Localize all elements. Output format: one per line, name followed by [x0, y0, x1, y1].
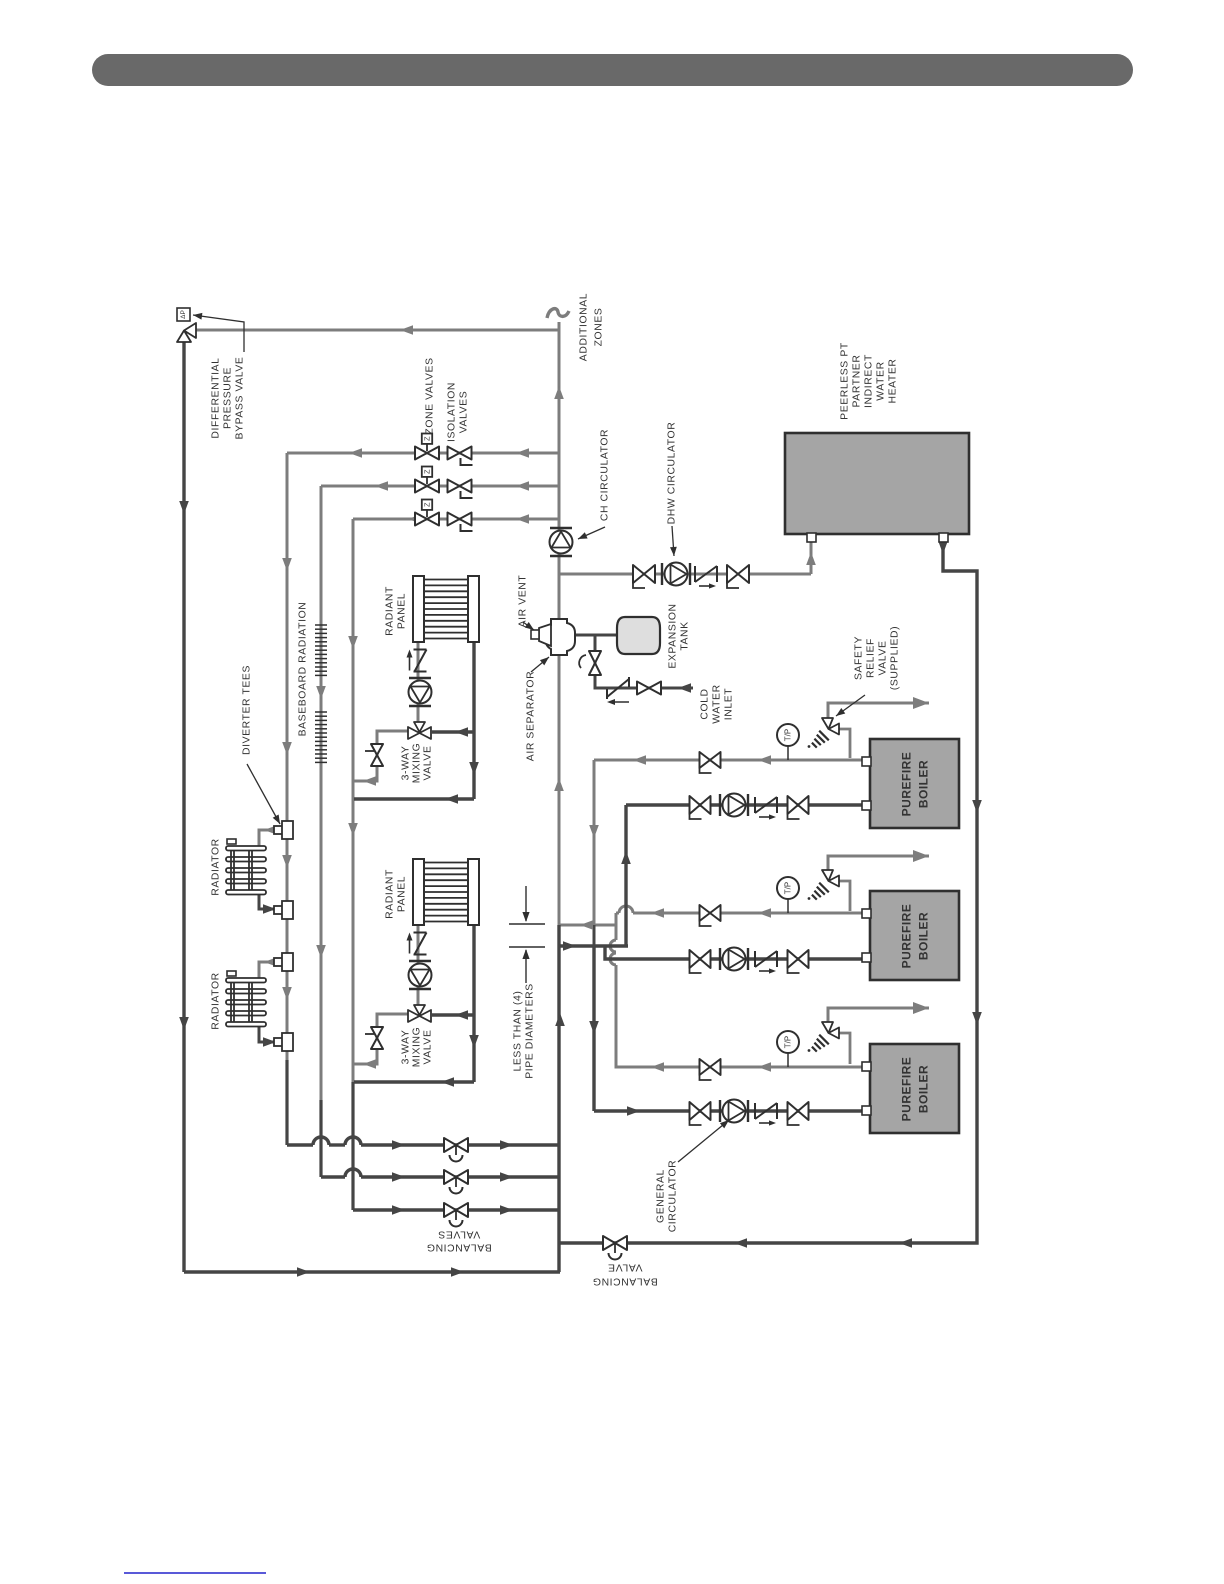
svg-text:VALVE: VALVE: [423, 746, 434, 781]
svg-text:GENERAL: GENERAL: [656, 1169, 667, 1223]
svg-text:BOILER: BOILER: [917, 912, 931, 960]
svg-text:INDIRECT: INDIRECT: [864, 354, 875, 408]
svg-text:ADDITIONAL: ADDITIONAL: [579, 293, 590, 361]
svg-text:PUREFIRE: PUREFIRE: [900, 1057, 914, 1122]
svg-text:PANEL: PANEL: [397, 593, 408, 629]
svg-text:RELIEF: RELIEF: [866, 638, 877, 678]
svg-text:ΔP: ΔP: [180, 310, 187, 319]
svg-text:T/P: T/P: [784, 1036, 793, 1048]
svg-text:BASEBOARD RADIATION: BASEBOARD RADIATION: [298, 602, 309, 737]
svg-text:INLET: INLET: [724, 688, 735, 720]
svg-text:3-WAY: 3-WAY: [401, 1030, 412, 1065]
svg-text:DIVERTER TEES: DIVERTER TEES: [242, 665, 253, 755]
svg-text:RADIATOR: RADIATOR: [211, 972, 222, 1030]
svg-text:TANK: TANK: [680, 621, 691, 650]
svg-text:WATER: WATER: [712, 684, 723, 723]
svg-text:VALVES: VALVES: [459, 391, 470, 434]
svg-text:ZONES: ZONES: [594, 308, 605, 347]
svg-text:PANEL: PANEL: [397, 876, 408, 912]
svg-text:Z: Z: [423, 469, 432, 474]
svg-text:SAFETY: SAFETY: [854, 636, 865, 680]
svg-text:Z: Z: [423, 436, 432, 441]
svg-text:HEATER: HEATER: [888, 359, 899, 404]
svg-text:PUREFIRE: PUREFIRE: [900, 904, 914, 969]
svg-text:(SUPPLIED): (SUPPLIED): [890, 626, 901, 690]
svg-text:MIXING: MIXING: [412, 1027, 423, 1068]
svg-text:DHW CIRCULATOR: DHW CIRCULATOR: [667, 422, 678, 525]
svg-text:T/P: T/P: [784, 729, 793, 741]
svg-text:RADIANT: RADIANT: [385, 869, 396, 919]
svg-text:3-WAY: 3-WAY: [401, 746, 412, 781]
svg-text:LESS THAN (4): LESS THAN (4): [513, 991, 524, 1072]
svg-text:ZONE VALVES: ZONE VALVES: [425, 357, 436, 434]
svg-text:MIXING: MIXING: [412, 743, 423, 784]
svg-text:BALANCING: BALANCING: [426, 1242, 491, 1253]
svg-text:AIR SEPARATOR: AIR SEPARATOR: [526, 671, 537, 761]
svg-text:PIPE DIAMETERS: PIPE DIAMETERS: [525, 983, 536, 1079]
svg-text:EXPANSION: EXPANSION: [668, 603, 679, 668]
svg-text:PUREFIRE: PUREFIRE: [900, 752, 914, 817]
svg-text:VALVES: VALVES: [438, 1229, 481, 1240]
svg-text:RADIANT: RADIANT: [385, 586, 396, 636]
svg-text:Z: Z: [423, 502, 432, 507]
svg-text:WATER: WATER: [876, 361, 887, 400]
svg-text:VALVE: VALVE: [878, 641, 889, 676]
svg-text:DIFFERENTIAL: DIFFERENTIAL: [211, 357, 222, 438]
svg-text:COLD: COLD: [700, 688, 711, 719]
svg-text:CH CIRCULATOR: CH CIRCULATOR: [600, 429, 611, 521]
svg-text:BYPASS VALVE: BYPASS VALVE: [235, 357, 246, 440]
svg-text:BOILER: BOILER: [917, 1065, 931, 1113]
svg-text:T/P: T/P: [784, 882, 793, 894]
svg-text:CIRCULATOR: CIRCULATOR: [668, 1160, 679, 1233]
svg-text:RADIATOR: RADIATOR: [211, 838, 222, 896]
svg-text:PEERLESS PT: PEERLESS PT: [840, 342, 851, 420]
svg-text:BOILER: BOILER: [917, 760, 931, 808]
svg-text:ISOLATION: ISOLATION: [447, 382, 458, 442]
svg-text:VALVE: VALVE: [608, 1262, 643, 1273]
svg-text:PARTNER: PARTNER: [852, 355, 863, 408]
svg-text:VALVE: VALVE: [423, 1030, 434, 1065]
svg-text:BALANCING: BALANCING: [592, 1276, 657, 1287]
svg-text:AIR VENT: AIR VENT: [518, 575, 529, 628]
svg-text:PRESSURE: PRESSURE: [223, 367, 234, 429]
